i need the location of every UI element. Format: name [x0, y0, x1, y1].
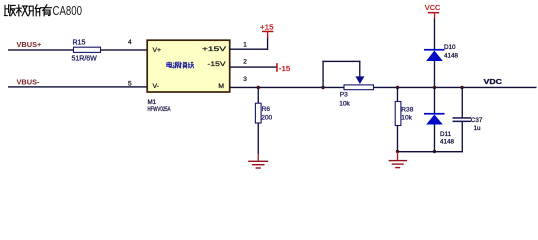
wire bottom net: [397, 151, 463, 152]
svg-text:HFWV025A: HFWV025A: [148, 106, 172, 113]
wire R38 to bottom net: [397, 125, 398, 152]
module M1 body: [147, 40, 230, 92]
wire D10 to node: [434, 61, 435, 87]
title 版权所有CA800: [4, 5, 51, 16]
label 电源模块: [167, 62, 194, 69]
svg-text:5: 5: [128, 81, 132, 88]
wire pin2 to -15: [230, 66, 277, 67]
svg-text:4148: 4148: [444, 53, 459, 60]
wire pin1 to +15: [230, 49, 268, 50]
svg-text:D11: D11: [440, 131, 452, 138]
svg-text:D10: D10: [444, 44, 456, 51]
wire node to C37: [462, 88, 463, 118]
diode D10: [424, 49, 445, 51]
svg-text:10k: 10k: [339, 101, 350, 108]
svg-text:V+: V+: [153, 47, 162, 54]
wire node to D11: [434, 88, 435, 113]
wire pot loop left: [322, 61, 323, 88]
svg-text:1: 1: [243, 41, 247, 48]
svg-text:R15: R15: [73, 39, 86, 46]
junction P3 wiper net: [321, 86, 324, 89]
svg-text:VCC: VCC: [425, 3, 441, 12]
potentiometer P3 wiper arrow: [355, 76, 364, 84]
svg-text:+15V: +15V: [202, 46, 227, 53]
模: [180, 62, 188, 69]
junction C37 top: [460, 86, 463, 89]
svg-text:4: 4: [128, 39, 132, 46]
svg-text:R38: R38: [401, 107, 413, 114]
svg-text:P3: P3: [340, 91, 348, 98]
svg-text:VBUS+: VBUS+: [17, 40, 42, 49]
junction diode node: [433, 86, 436, 89]
wire R6 to ground: [258, 123, 259, 154]
svg-text:1u: 1u: [474, 125, 482, 132]
resistor R38: [395, 102, 401, 126]
svg-text:2: 2: [243, 58, 247, 65]
wire VBUS-: [8, 86, 148, 87]
电: [167, 62, 172, 68]
权: [16, 5, 27, 16]
junction ground: [396, 150, 399, 153]
svg-text:VBUS-: VBUS-: [17, 78, 40, 87]
wire D11 to bottom net: [434, 125, 435, 153]
potentiometer P3: [344, 85, 374, 90]
junction R6: [257, 86, 260, 89]
ground: [258, 154, 259, 161]
wire C37 to bottom net: [462, 122, 463, 152]
svg-text:3: 3: [243, 76, 247, 83]
svg-text:+15: +15: [260, 24, 274, 31]
wire VBUS+: [8, 49, 148, 50]
resistor R6: [255, 103, 261, 123]
svg-text:-15V: -15V: [208, 61, 227, 68]
有: [40, 5, 51, 16]
wire R6 drop: [258, 88, 259, 104]
svg-text:VDC: VDC: [484, 79, 503, 86]
svg-text:C37: C37: [471, 117, 483, 124]
svg-text:V-: V-: [153, 83, 159, 90]
svg-text:CA800: CA800: [53, 4, 83, 18]
junction R38: [396, 86, 399, 89]
wire pot loop top: [322, 61, 360, 62]
diode D11: [424, 113, 445, 115]
块: [188, 62, 194, 69]
power -15: [276, 63, 278, 72]
capacitor C37: [453, 117, 472, 119]
svg-text:4148: 4148: [440, 138, 455, 145]
svg-text:51R/6W: 51R/6W: [72, 56, 98, 63]
power +15: [267, 31, 268, 38]
svg-text:-15: -15: [279, 66, 291, 73]
wire pin3 main net to VDC: [230, 87, 537, 88]
svg-text:M1: M1: [148, 99, 157, 106]
svg-text:10k: 10k: [401, 115, 412, 122]
svg-text:M: M: [218, 83, 224, 90]
源: [173, 62, 180, 68]
resistor R15: [74, 47, 101, 52]
wire R38 drop: [397, 88, 398, 102]
ground: [397, 152, 398, 160]
junction D11 bottom: [433, 150, 436, 153]
svg-text:R6: R6: [262, 106, 271, 113]
所: [29, 5, 41, 16]
svg-text:200: 200: [261, 115, 272, 122]
版: [4, 5, 15, 16]
wire VCC to D10: [434, 19, 435, 50]
wire pot loop right: [359, 61, 360, 77]
